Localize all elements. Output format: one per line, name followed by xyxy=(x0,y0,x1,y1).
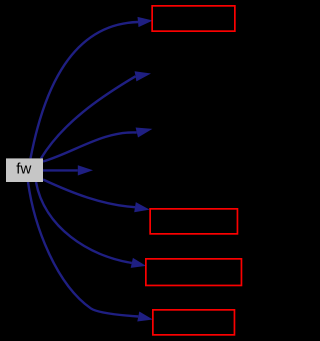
svg-text:fw: fw xyxy=(16,161,31,178)
